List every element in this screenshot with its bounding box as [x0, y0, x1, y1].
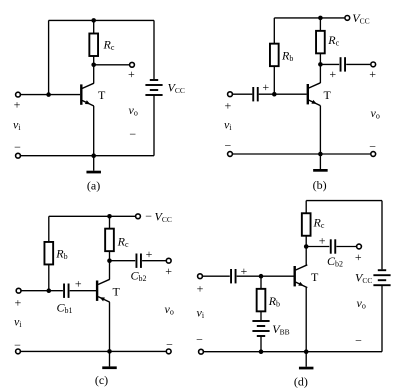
- wire input to base (a): [21, 94, 80, 96]
- wire top rail (a): [49, 19, 154, 21]
- output terminal (a): [130, 62, 135, 67]
- svg-text:vo: vo: [129, 103, 138, 118]
- svg-text:vo: vo: [357, 296, 366, 311]
- svg-text:−: −: [196, 332, 203, 346]
- battery VCC (d): [373, 269, 390, 286]
- resistor Rc (a): [89, 34, 98, 57]
- capacitor output coupling (b): [340, 57, 346, 71]
- bottom-left terminal (b): [228, 152, 233, 157]
- svg-text:vi: vi: [14, 314, 22, 329]
- node collector (b): [318, 62, 323, 67]
- wire top rail to resistor Rc (d): [305, 201, 307, 214]
- bottom-left terminal (a): [16, 153, 21, 158]
- wire output (a): [94, 64, 129, 66]
- output terminal (c): [166, 258, 171, 263]
- capacitor input coupling (b): [252, 87, 258, 101]
- wire collector vertical (a): [93, 65, 95, 84]
- svg-text:VBB: VBB: [272, 322, 289, 337]
- wire top rail to resistor Rb (b): [273, 18, 275, 44]
- svg-text:+: +: [329, 67, 336, 81]
- svg-text:vo: vo: [371, 106, 380, 121]
- wire input to capacitor (b): [233, 93, 252, 95]
- bottom-left terminal (d): [199, 349, 204, 354]
- ground (a): [86, 156, 101, 174]
- svg-text:Rb: Rb: [268, 294, 280, 309]
- resistor Rb (c): [44, 242, 53, 265]
- node Rb input junction (c): [47, 288, 52, 293]
- svg-text:VCC: VCC: [155, 209, 172, 224]
- node top rail junction (c): [107, 214, 112, 219]
- battery VCC (a): [145, 79, 162, 96]
- wire capacitor to base (d): [237, 275, 294, 277]
- svg-text:(d): (d): [294, 374, 308, 388]
- node VBB bottom junction (d): [259, 349, 264, 354]
- wire emitter vertical (c): [109, 302, 111, 351]
- wire input to capacitor Cb1 (c): [22, 290, 63, 292]
- svg-text:+: +: [128, 67, 135, 81]
- node collector (d): [304, 244, 309, 249]
- VCC terminal (b): [345, 16, 350, 21]
- svg-text:Rb: Rb: [281, 48, 293, 63]
- wire resistor Rc to collector node (d): [305, 236, 307, 247]
- wire bottom rail (c): [21, 350, 166, 352]
- svg-text:T: T: [324, 88, 332, 102]
- wire collector vertical (d): [305, 247, 307, 266]
- svg-text:VCC: VCC: [352, 11, 369, 26]
- wire resistor Rc to collector node (c): [109, 251, 111, 261]
- svg-text:Cb2: Cb2: [131, 269, 147, 284]
- svg-text:Rc: Rc: [103, 37, 115, 52]
- input terminal (c): [16, 288, 21, 293]
- svg-text:vi: vi: [197, 306, 205, 321]
- svg-text:Rc: Rc: [117, 235, 129, 250]
- wire battery VBB to bottom rail (d): [260, 336, 262, 352]
- svg-text:(a): (a): [87, 179, 100, 193]
- svg-text:T: T: [98, 88, 106, 102]
- svg-text:−: −: [355, 334, 362, 348]
- wire emitter vertical (b): [319, 106, 321, 154]
- wire top rail (b): [274, 17, 344, 19]
- wire capacitor Cb2 to output terminal (c): [142, 260, 166, 262]
- svg-text:(b): (b): [313, 178, 327, 192]
- svg-text:Cb2: Cb2: [327, 254, 343, 269]
- svg-text:−: −: [14, 338, 21, 352]
- resistor Rb (b): [270, 44, 279, 67]
- node base junction (d): [259, 274, 264, 279]
- svg-text:−: −: [225, 139, 232, 153]
- wire capacitor Cb1 to base (c): [70, 290, 96, 292]
- wire resistor Rc to collector node (a): [93, 56, 95, 65]
- wire collector vertical (b): [319, 64, 321, 83]
- node emitter bottom junction (a): [91, 153, 96, 158]
- wire input to capacitor (d): [203, 275, 230, 277]
- resistor Rb (d): [257, 289, 266, 312]
- resistor Rc (d): [302, 213, 311, 236]
- output terminal (d): [357, 244, 362, 249]
- input terminal (b): [228, 92, 233, 97]
- svg-text:VCC: VCC: [355, 270, 372, 285]
- bottom-right terminal (b): [371, 152, 376, 157]
- node collector (a): [91, 63, 96, 68]
- node base junction (b): [272, 92, 277, 97]
- wire output capacitor to terminal (b): [346, 63, 370, 65]
- svg-text:Rc: Rc: [313, 216, 325, 231]
- wire left vertical from top rail to base node (a): [48, 20, 50, 94]
- transistor T (a) NPN: [80, 83, 94, 106]
- wire top rail (c): [49, 215, 135, 217]
- node collector (c): [107, 258, 112, 263]
- ground (d): [299, 352, 314, 370]
- wire collector vertical (c): [109, 261, 111, 280]
- svg-text:−: −: [129, 127, 136, 141]
- node top rail junction (a): [91, 18, 96, 23]
- svg-text:+: +: [369, 67, 376, 81]
- capacitor Cb2 (c): [136, 254, 142, 268]
- node top rail junction (b): [318, 16, 323, 21]
- svg-text:−: −: [14, 140, 21, 154]
- output terminal (b): [371, 62, 376, 67]
- wire bottom rail (d): [204, 351, 382, 353]
- svg-text:+: +: [355, 250, 362, 264]
- transistor T (d) NPN: [294, 265, 308, 288]
- wire collector node to capacitor Cb2 (c): [110, 260, 136, 262]
- wire collector node to output capacitor (b): [320, 63, 339, 65]
- svg-text:−: −: [369, 140, 376, 154]
- svg-text:+: +: [197, 282, 204, 296]
- wire collector node to capacitor Cb2 (d): [306, 246, 329, 248]
- wire resistor Rb to battery VBB (d): [260, 311, 262, 320]
- battery VBB (d): [252, 320, 269, 337]
- wire right vertical bottom (d): [381, 285, 383, 352]
- wire top rail to resistor Rc (b): [319, 18, 321, 31]
- resistor Rc (c): [105, 229, 114, 252]
- svg-text:vo: vo: [165, 302, 174, 317]
- svg-text:+: +: [75, 276, 82, 290]
- svg-text:Rc: Rc: [327, 33, 339, 48]
- wire top rail (d): [306, 200, 382, 202]
- svg-text:+: +: [262, 80, 269, 94]
- svg-text:+: +: [146, 247, 153, 261]
- node base junction (a): [46, 92, 51, 97]
- bottom-right terminal (c): [166, 349, 171, 354]
- wire battery bottom (a): [153, 95, 155, 156]
- svg-text:+: +: [15, 296, 22, 310]
- node emitter bottom junction (c): [107, 349, 112, 354]
- wire resistor Rb to input node (c): [48, 265, 50, 291]
- capacitor Cb2 (d): [330, 239, 336, 253]
- svg-text:T: T: [113, 284, 121, 298]
- wire top rail to resistor Rc (a): [93, 20, 95, 33]
- node emitter bottom junction (b): [318, 152, 323, 157]
- wire capacitor Cb2 to output terminal (d): [336, 246, 356, 248]
- wire capacitor to base (b): [259, 93, 307, 95]
- svg-text:Rb: Rb: [55, 247, 67, 262]
- input terminal (d): [198, 274, 203, 279]
- capacitor Cb1 (c): [63, 284, 69, 298]
- wire bottom rail (b): [233, 153, 370, 155]
- ground (b): [313, 154, 328, 172]
- wire bottom rail (a): [21, 155, 154, 157]
- svg-text:T: T: [311, 270, 319, 284]
- svg-text:vi: vi: [13, 118, 21, 133]
- transistor T (c) PNP: [96, 279, 110, 302]
- wire right vertical top (d): [381, 201, 383, 270]
- svg-text:+: +: [225, 98, 232, 112]
- wire battery top (a): [153, 20, 155, 79]
- svg-text:−: −: [145, 209, 152, 223]
- svg-text:VCC: VCC: [168, 81, 185, 96]
- wire base node to resistor Rb (d): [260, 276, 262, 289]
- svg-text:−: −: [166, 338, 173, 352]
- negative VCC terminal (c): [136, 214, 141, 219]
- input terminal (a): [16, 92, 21, 97]
- wire top rail to resistor Rc (c): [109, 216, 111, 228]
- svg-text:+: +: [14, 97, 21, 111]
- svg-text:Cb1: Cb1: [57, 301, 73, 316]
- transistor T (b) NPN: [307, 83, 321, 106]
- wire emitter vertical (a): [93, 106, 95, 156]
- ground (c): [102, 351, 117, 369]
- wire emitter vertical (d): [305, 288, 307, 352]
- wire resistor Rc to collector node (b): [319, 53, 321, 64]
- resistor Rc (b): [316, 31, 325, 54]
- wire top rail to resistor Rb (c): [48, 216, 50, 241]
- svg-text:vi: vi: [224, 118, 232, 133]
- svg-text:(c): (c): [95, 373, 108, 387]
- node emitter bottom junction (d): [304, 349, 309, 354]
- wire resistor Rb to base node (b): [273, 66, 275, 94]
- bottom-left terminal (c): [16, 349, 21, 354]
- svg-text:+: +: [319, 234, 326, 248]
- capacitor input coupling (d): [230, 269, 236, 283]
- svg-text:+: +: [165, 264, 172, 278]
